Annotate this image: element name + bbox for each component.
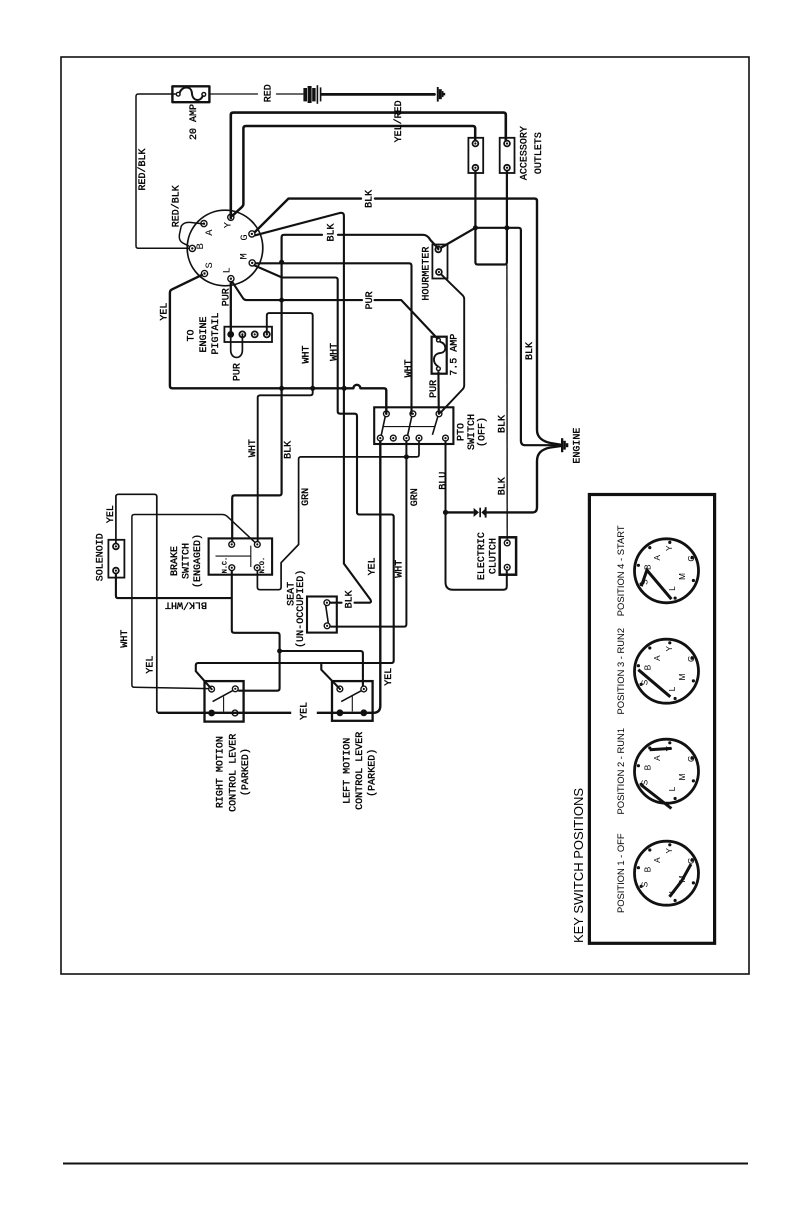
wire PUR from L terminal to engine pigtail pin 1 [230,282,232,335]
svg-text:GRN: GRN [410,488,421,506]
svg-text:CONTROL LEVER: CONTROL LEVER [228,734,239,812]
svg-text:BLU: BLU [438,472,449,490]
wire YEL from PTO terminal 1 down to lever common rail [373,441,380,713]
svg-text:B: B [644,664,653,670]
wire RED thick run to battery arrow [322,93,435,96]
fuse F2 7.5 AMP body [432,337,447,374]
footer rule [63,1163,748,1165]
svg-text:TO: TO [187,329,198,341]
wire WHT brake top-right diagonal to west white drop [132,515,255,689]
svg-text:YEL: YEL [384,668,395,686]
svg-text:POSITION 3 - RUN2: POSITION 3 - RUN2 [615,628,626,714]
key switch terminal letters [195,221,251,273]
svg-text:L: L [668,686,677,691]
wire N.C. chain from brake bottom-left to lever top terminals [232,571,363,691]
svg-text:20 AMP: 20 AMP [189,104,200,140]
svg-text:BLK: BLK [283,441,294,459]
svg-text:M: M [238,253,250,259]
diode D1 line from BLU junction to engine ground [446,446,562,513]
position circle START [615,525,698,616]
fuse F1 20 AMP body [172,86,209,102]
left motion control lever switch S5 [332,681,373,721]
accessory outlet 1 [468,138,483,173]
PTO switch S1 [374,407,453,444]
wire YEL/RED from Y terminal to right accessory outlet [231,113,506,218]
wire WHT from pigtail pin 4 via jog down to brake switch N.O. side [258,313,313,541]
svg-text:B: B [195,243,207,249]
svg-text:CLUTCH: CLUTCH [488,538,499,574]
svg-text:7.5 AMP: 7.5 AMP [449,334,460,376]
svg-text:SWITCH: SWITCH [182,543,193,579]
svg-text:BLK: BLK [364,190,375,208]
svg-text:LEFT MOTION: LEFT MOTION [342,738,353,804]
svg-text:BLK: BLK [344,590,355,608]
wire RED fuse to connector [209,93,303,95]
svg-text:A: A [653,655,662,661]
svg-text:A: A [204,229,216,236]
svg-text:L: L [668,786,677,791]
position circle RUN2 [615,628,698,714]
svg-text:N.C.: N.C. [221,557,229,573]
key switch positions chart box [589,495,714,944]
svg-text:PUR: PUR [365,291,376,309]
wire from hourmeter bottom to PTO switch terminal 3 [440,274,464,413]
svg-text:KEY SWITCH POSITIONS: KEY SWITCH POSITIONS [571,788,586,943]
svg-text:WHT: WHT [329,343,340,361]
svg-text:WHT: WHT [404,359,415,377]
svg-text:(OFF): (OFF) [477,417,489,447]
svg-text:WHT: WHT [248,439,259,457]
svg-text:A: A [653,554,662,560]
position bars START [641,570,671,599]
wire PUR fuse bottom to PTO terminal 3 [437,371,439,414]
hourmeter M1 [432,245,447,279]
svg-text:ENGINE: ENGINE [572,428,583,464]
svg-text:BLK: BLK [525,342,536,360]
diode D1 symbol [474,507,487,517]
svg-text:YEL/RED: YEL/RED [393,100,405,142]
svg-text:RED/BLK: RED/BLK [137,148,149,190]
svg-text:RED: RED [263,84,274,102]
wire WHT from M terminal via jog to motion lever switches [196,265,394,688]
svg-text:SOLENOID: SOLENOID [95,533,106,581]
svg-text:B: B [644,764,653,770]
svg-text:L: L [668,586,677,591]
svg-text:BLK: BLK [326,223,337,241]
wire GRN from PTO terminal 3 down to seat switch [330,441,409,627]
svg-text:G: G [239,234,251,240]
svg-text:RIGHT MOTION: RIGHT MOTION [216,736,227,808]
svg-text:POSITION 1 - OFF: POSITION 1 - OFF [615,833,626,913]
accessory outlet 2 [500,138,515,173]
border frame [61,57,749,974]
svg-text:GRN: GRN [301,488,312,506]
svg-text:BLK/WHT: BLK/WHT [165,599,207,611]
svg-text:M: M [678,673,687,680]
wire RED/BLK stub at A terminal [179,222,204,246]
svg-text:YEL: YEL [106,505,117,523]
wire YEL common rail through both levers [158,712,374,714]
position bars RUN2 [638,670,670,697]
solenoid K1 [108,540,124,578]
wire YEL/RED branch 2 from Y terminal to left accessory outlet [233,126,476,216]
svg-text:M: M [678,773,687,780]
svg-text:POSITION 4 - START: POSITION 4 - START [615,525,626,616]
wire YEL from S terminal to PTO switch terminal 1 [170,275,386,414]
key switch U1 [187,210,263,286]
svg-text:CONTROL LEVER: CONTROL LEVER [355,732,366,810]
svg-text:(UN-OCCUPIED): (UN-OCCUPIED) [295,570,307,648]
wire GRN from PTO terminal 4 down to brake switch N.O. [257,441,419,590]
svg-text:PUR: PUR [221,288,232,306]
svg-text:B: B [644,564,653,570]
svg-text:YEL: YEL [299,702,310,720]
svg-text:Y: Y [223,221,235,228]
wire BLK thin from outlets down to electric clutch [506,265,508,541]
svg-text:WHT: WHT [120,630,131,648]
svg-text:ELECTRIC: ELECTRIC [477,532,488,580]
svg-text:BLK: BLK [497,477,508,495]
svg-text:ENGINE: ENGINE [199,316,210,352]
svg-text:YEL: YEL [146,656,157,674]
svg-text:ACCESSORY: ACCESSORY [519,126,530,180]
svg-text:N.O.: N.O. [259,557,267,573]
wire WHT branch to left lever top-left terminal [321,663,339,688]
engine ground arrow [561,438,568,452]
svg-text:SWITCH: SWITCH [467,414,478,450]
svg-text:L: L [221,267,233,273]
position circle OFF [615,833,698,913]
position bars OFF [670,864,692,897]
wire BLK from G terminal to engine ground (top run) [255,199,561,445]
svg-text:PIGTAIL: PIGTAIL [211,312,222,354]
connector splice symbol on RED wire [303,85,321,104]
svg-text:POSITION 2 - RUN1: POSITION 2 - RUN1 [615,728,626,814]
PTO switch blades [381,417,438,436]
svg-text:YEL: YEL [159,303,170,321]
engine pigtail connector J1 [224,327,272,342]
wire YEL solenoid top to lever rail (west yellow) [116,494,159,713]
svg-text:(ENGAGED): (ENGAGED) [192,534,204,588]
wire BLK/WHT solenoid bottom to brake N.C. leg [116,574,232,599]
brake switch S2 [209,538,273,574]
svg-text:PUR: PUR [429,380,440,398]
svg-text:HOURMETER: HOURMETER [421,247,432,301]
wire bus from hourmeter top / brake switch (vertical x281.6) [338,235,438,249]
svg-text:S: S [204,262,216,268]
electric clutch L1 [500,537,516,574]
key switch terminals Y A B S L M G [189,214,255,282]
wire RED/BLK from fuse to B terminal [136,94,189,248]
svg-text:RED/BLK: RED/BLK [170,185,182,227]
wire BLK from G terminal down to seat switch [255,213,371,603]
svg-text:PUR: PUR [233,363,244,381]
svg-text:A: A [653,755,662,761]
wire PUR jumper loop pins 1-2 of pigtail [231,334,243,357]
svg-text:A: A [653,857,662,863]
svg-text:WHT: WHT [395,560,406,578]
svg-text:B: B [644,866,653,872]
svg-text:YEL: YEL [368,557,379,575]
right motion control lever switch S4 [205,681,244,722]
seat switch S3 [307,597,337,633]
wire BLU from PTO terminal 5 to electric clutch [443,441,507,590]
svg-text:BRAKE: BRAKE [170,546,181,576]
arrow terminal (battery feed) [437,87,445,102]
svg-text:OUTLETS: OUTLETS [534,132,545,174]
svg-text:Y: Y [665,847,674,853]
wire PUR from L terminal going right to 7.5A fuse [232,282,437,339]
wires linking accessory outlets and hourmeter junctions [441,171,562,446]
svg-text:Y: Y [665,645,674,651]
svg-text:M: M [678,573,687,580]
junction dots on yellow run [279,260,347,391]
svg-text:(PARKED): (PARKED) [367,749,379,797]
svg-text:PTO: PTO [456,423,467,441]
svg-text:WHT: WHT [302,345,313,363]
position circle RUN1 [615,728,698,814]
svg-text:BLK: BLK [497,415,508,433]
svg-text:(PARKED): (PARKED) [240,748,252,796]
svg-text:Y: Y [665,545,674,551]
wire WHT from M terminal to PTO switch terminal 2 [255,263,411,414]
position bars RUN1 [641,748,671,808]
